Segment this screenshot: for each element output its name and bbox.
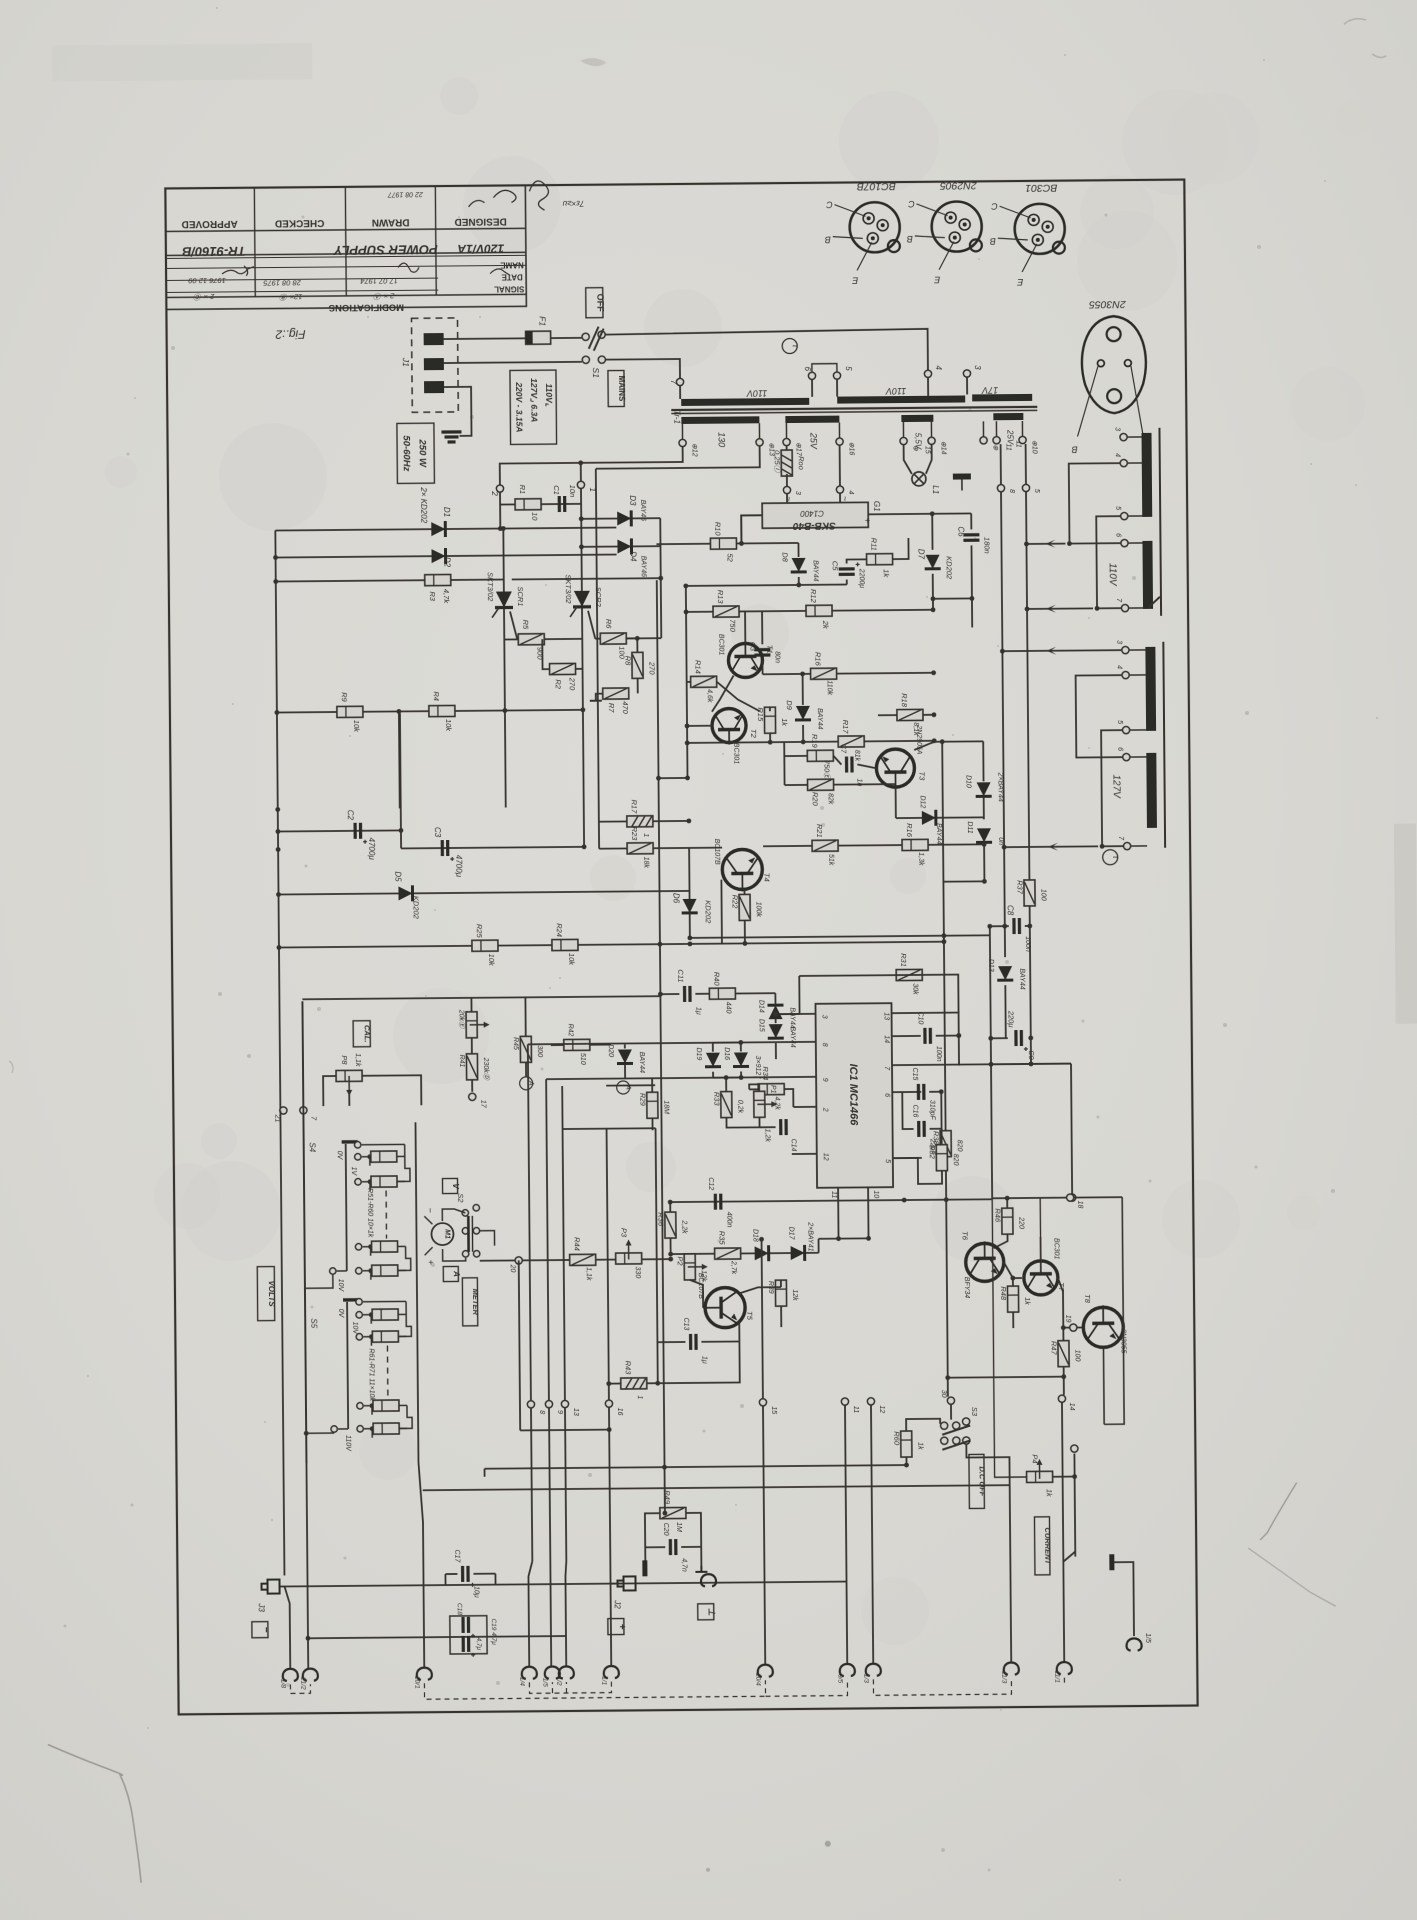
wire — [1102, 1197, 1124, 1424]
junction — [1072, 1474, 1077, 1479]
capacitor C15 — [918, 1084, 924, 1100]
wire — [290, 1684, 310, 1693]
svg-text:51k: 51k — [827, 854, 834, 866]
junction — [1002, 845, 1007, 850]
resistor R16 — [902, 839, 928, 850]
svg-text:100: 100 — [1039, 889, 1046, 901]
wire — [528, 1561, 533, 1666]
wire — [914, 742, 942, 750]
title block signature squiggle 2 — [398, 262, 510, 276]
svg-text:C13: C13 — [682, 1318, 689, 1331]
junction — [982, 842, 987, 847]
wire — [455, 710, 505, 712]
wire — [839, 494, 841, 503]
svg-text:400n: 400n — [725, 1212, 732, 1228]
svg-text:R3: R3 — [428, 591, 437, 601]
svg-text:D15: D15 — [758, 1019, 765, 1032]
wire — [867, 1187, 869, 1238]
svg-text:0V: 0V — [337, 1309, 344, 1319]
wire — [397, 1156, 410, 1181]
svg-text:⊕10: ⊕10 — [1031, 440, 1038, 454]
wire — [1128, 462, 1142, 464]
svg-text:310pF: 310pF — [928, 1100, 935, 1121]
svg-text:3: 3 — [1115, 640, 1122, 644]
wire — [776, 1013, 800, 1015]
wire — [763, 1406, 765, 1664]
connector J1 pin 1 — [424, 333, 444, 345]
junction — [607, 1427, 612, 1432]
junction — [1024, 542, 1029, 547]
wire — [784, 1089, 793, 1107]
svg-text:P1: P1 — [769, 1085, 776, 1094]
svg-text:J3: J3 — [257, 1602, 266, 1612]
svg-text:R2: R2 — [554, 679, 563, 689]
junction — [1061, 1374, 1066, 1379]
wire — [749, 1084, 759, 1091]
wire — [398, 1314, 411, 1336]
svg-text:BAY44: BAY44 — [789, 1007, 796, 1028]
svg-text:D19: D19 — [695, 1047, 702, 1060]
resistor R11 — [867, 554, 893, 565]
svg-text:9/5: 9/5 — [836, 1674, 843, 1683]
junction — [970, 596, 975, 601]
svg-text:R35: R35 — [717, 1231, 726, 1246]
potentiometer P3 — [616, 1253, 642, 1264]
wire — [819, 1237, 869, 1239]
wire — [983, 867, 985, 881]
svg-text:8: 8 — [821, 1043, 828, 1047]
terminal -1/5 — [545, 1666, 560, 1678]
svg-text:R51-R60 10×1k: R51-R60 10×1k — [366, 1188, 373, 1238]
resistor R35 — [715, 1248, 741, 1259]
resistor — [372, 1241, 398, 1252]
svg-text:R22: R22 — [731, 895, 740, 910]
wire — [837, 1188, 839, 1239]
svg-text:440: 440 — [724, 1002, 731, 1014]
svg-text:21/2: 21/2 — [299, 1676, 306, 1690]
wire — [565, 1408, 566, 1561]
svg-text:2: 2 — [490, 490, 499, 496]
svg-text:1/3: 1/3 — [862, 1674, 869, 1683]
wire — [590, 1044, 611, 1046]
wire — [444, 387, 471, 436]
svg-text:127V⌟ 6.3A: 127V⌟ 6.3A — [529, 378, 539, 422]
wire — [847, 559, 867, 563]
node — [1123, 753, 1130, 760]
wire — [253, 188, 256, 297]
wire — [302, 1001, 306, 1463]
svg-text:14: 14 — [1068, 1403, 1075, 1411]
SCR1 SKT3/02 — [492, 591, 513, 617]
node — [1123, 842, 1130, 849]
svg-text:CAL.: CAL. — [363, 1025, 372, 1043]
svg-text:2×BAY41: 2×BAY41 — [806, 1221, 813, 1251]
svg-text:P3: P3 — [619, 1228, 628, 1238]
wire — [783, 756, 785, 785]
wire — [541, 503, 581, 505]
junction — [904, 1463, 909, 1468]
wire — [653, 847, 722, 850]
S2 contact — [473, 1228, 479, 1234]
wire — [993, 1234, 1007, 1248]
wire — [833, 756, 841, 765]
svg-text:7ɛ×≥ʊ: 7ɛ×≥ʊ — [562, 199, 584, 208]
wire — [739, 1287, 781, 1293]
svg-text:C16: C16 — [911, 1105, 918, 1118]
wire — [868, 513, 932, 516]
svg-text:82k: 82k — [827, 793, 834, 805]
wire — [528, 1044, 531, 1400]
svg-text:R23: R23 — [630, 826, 639, 841]
svg-text:10: 10 — [530, 512, 539, 521]
svg-text:R44: R44 — [573, 1237, 582, 1251]
wire — [275, 529, 500, 531]
node — [679, 439, 686, 446]
resistor — [372, 1331, 398, 1342]
wire — [285, 1586, 291, 1668]
wire — [166, 252, 526, 255]
svg-text:R13: R13 — [716, 590, 725, 605]
wire — [717, 681, 760, 711]
wire — [1076, 675, 1123, 757]
wire — [660, 578, 663, 638]
capacitor C8 — [1014, 918, 1020, 934]
svg-text:SCR2: SCR2 — [594, 587, 603, 608]
wire — [932, 512, 971, 514]
wire — [1129, 649, 1145, 651]
resistor R41 — [466, 1054, 477, 1080]
svg-text:C: C — [908, 199, 915, 209]
capacitor C14 — [781, 1119, 787, 1135]
node — [980, 437, 987, 444]
label box mains voltages — [510, 370, 557, 444]
wire — [303, 1114, 308, 1668]
resistor — [373, 1400, 399, 1411]
resistor R44 — [570, 1254, 596, 1265]
wire — [990, 925, 1005, 927]
transformer Tr1 primary winding bar 2 — [837, 395, 965, 403]
node — [545, 1401, 552, 1408]
wire — [1131, 845, 1147, 847]
wire — [995, 421, 997, 436]
svg-text:C10: C10 — [917, 1011, 924, 1024]
svg-text:11: 11 — [852, 1406, 859, 1413]
wire — [713, 1041, 741, 1043]
wire — [1002, 650, 1121, 651]
svg-text:Fig.:2: Fig.:2 — [275, 327, 305, 341]
svg-text:B: B — [1072, 445, 1078, 455]
wire — [479, 1231, 494, 1246]
terminal 1/5 — [1126, 1638, 1141, 1650]
svg-text:D3: D3 — [628, 495, 637, 506]
S5 tap bar 0V — [343, 1298, 359, 1302]
capacitor C2 — [355, 823, 367, 844]
wire — [1000, 444, 1002, 484]
wire — [306, 1275, 333, 1288]
wire — [1069, 463, 1121, 543]
resistor R20 — [808, 779, 834, 790]
junction — [1028, 1036, 1033, 1041]
node — [759, 1399, 766, 1406]
P8 wiper — [346, 1076, 352, 1096]
resistor R29 — [647, 1092, 658, 1118]
svg-text:B: B — [990, 236, 996, 246]
wire — [665, 1485, 1010, 1488]
wire — [1096, 516, 1121, 608]
capacitor C12 — [715, 1194, 721, 1210]
diode D3 — [617, 510, 631, 526]
wire — [657, 1341, 739, 1383]
wire — [607, 1129, 609, 1400]
diode D1 — [431, 521, 445, 537]
wire — [812, 364, 837, 372]
svg-text:D5: D5 — [393, 871, 402, 882]
svg-text:1: 1 — [642, 833, 649, 837]
resistor R38 — [940, 1131, 951, 1157]
wire — [636, 638, 638, 652]
svg-text:R9: R9 — [340, 692, 349, 702]
svg-text:~: ~ — [840, 496, 850, 501]
resistor R42 — [564, 1039, 590, 1050]
svg-text:⊕16: ⊕16 — [848, 442, 855, 456]
pin node — [1071, 1445, 1078, 1452]
resistor R3 — [425, 574, 451, 585]
transformer Tr1 primary winding bar 3 — [972, 394, 1032, 402]
junction — [687, 935, 692, 940]
svg-text:1μ: 1μ — [701, 1356, 708, 1364]
connector J1 pin 2 — [424, 358, 444, 370]
wire — [1040, 1237, 1042, 1261]
svg-text:C17: C17 — [453, 1550, 460, 1564]
wire — [444, 362, 582, 363]
wire — [1130, 729, 1146, 731]
transistor T5 BC107B — [703, 1287, 745, 1327]
wire — [769, 707, 771, 711]
wire — [280, 1110, 284, 1575]
wire — [971, 598, 973, 627]
wire — [758, 423, 760, 438]
junction — [1002, 924, 1007, 929]
svg-text:470: 470 — [621, 701, 630, 714]
wire — [400, 713, 401, 830]
wire — [1030, 906, 1031, 1064]
junction — [276, 829, 281, 834]
junction — [931, 670, 936, 675]
svg-text:R10: R10 — [713, 522, 722, 537]
resistor — [372, 1309, 398, 1320]
wire — [1005, 925, 1009, 927]
svg-text:BAY44: BAY44 — [812, 560, 819, 581]
wire — [485, 1465, 907, 1469]
wire — [686, 610, 933, 612]
S3 contact — [953, 1437, 960, 1444]
S3 contact — [963, 1437, 970, 1444]
wire — [398, 1245, 406, 1247]
svg-text:127V: 127V — [1110, 774, 1121, 799]
meter M1 — [431, 1223, 453, 1245]
svg-text:D16: D16 — [723, 1047, 730, 1060]
svg-text:D.C OFF: D.C OFF — [978, 1466, 987, 1496]
svg-text:R21: R21 — [815, 824, 824, 838]
svg-text:820: 820 — [956, 1140, 963, 1152]
diode D13 — [997, 966, 1013, 980]
junction — [1010, 1276, 1015, 1281]
wire — [1163, 642, 1165, 848]
svg-text:5: 5 — [1114, 506, 1121, 510]
junction — [759, 1237, 764, 1242]
wire — [644, 1547, 646, 1560]
wire — [599, 820, 627, 822]
pin 14 — [1058, 1395, 1065, 1402]
wire — [346, 1144, 347, 1271]
wire — [337, 1270, 347, 1272]
transistor T1 BC301 — [728, 641, 762, 677]
wire — [983, 843, 985, 867]
svg-text:10k: 10k — [487, 954, 496, 967]
wire — [1063, 1552, 1075, 1562]
wire — [904, 445, 912, 474]
svg-text:4: 4 — [1116, 665, 1123, 669]
transformer Tr1 secondary winding 25V — [785, 416, 839, 423]
junction — [932, 738, 937, 743]
resistor R43 — [621, 1378, 647, 1389]
svg-text:17 07 1974: 17 07 1974 — [360, 276, 398, 285]
terminal earth — [701, 1574, 716, 1586]
svg-text:1,3k: 1,3k — [917, 852, 924, 866]
svg-text:220: 220 — [1017, 1216, 1024, 1229]
wire — [946, 1198, 992, 1200]
wire — [279, 942, 944, 948]
svg-text:R46: R46 — [993, 1208, 1002, 1223]
wire — [1004, 985, 1006, 1038]
capacitor C10 — [925, 1028, 931, 1044]
resistor R6 — [600, 633, 626, 644]
svg-text:110k: 110k — [826, 680, 833, 695]
svg-text:CURRENT: CURRENT — [1043, 1527, 1052, 1565]
node — [330, 1268, 336, 1274]
svg-text:F1: F1 — [537, 316, 547, 326]
capacitor C17 — [463, 1566, 475, 1587]
svg-text:250 W: 250 W — [417, 438, 428, 468]
capacitor C16 — [919, 1121, 925, 1137]
wire — [1012, 1278, 1014, 1286]
junction — [580, 707, 585, 712]
junction — [579, 544, 584, 549]
svg-text:DESIGNED: DESIGNED — [454, 215, 506, 226]
svg-text:1,1k: 1,1k — [354, 1053, 361, 1067]
wire — [780, 1280, 782, 1287]
wire — [370, 1247, 372, 1256]
svg-text:C9: C9 — [1027, 1050, 1036, 1060]
svg-text:11: 11 — [830, 1191, 837, 1198]
wire — [763, 673, 811, 675]
wire — [399, 1404, 407, 1406]
wire — [363, 1300, 406, 1302]
pin 8 — [997, 485, 1004, 492]
svg-text:D6: D6 — [672, 893, 681, 904]
wire — [308, 1636, 566, 1638]
wire — [679, 386, 681, 399]
wire — [405, 1301, 407, 1314]
terminal 10/1 — [417, 1668, 432, 1680]
resistor R19 — [807, 750, 833, 761]
svg-text:R19: R19 — [810, 734, 819, 749]
svg-text:50-60Hz: 50-60Hz — [400, 435, 411, 471]
junction — [768, 740, 773, 745]
svg-text:OFF: OFF — [595, 294, 605, 313]
2N3055 TO-3 package outline — [1081, 316, 1146, 414]
fuse F1 — [526, 331, 551, 344]
wire — [690, 935, 990, 938]
svg-text:IC1 MC1466: IC1 MC1466 — [847, 1064, 860, 1127]
S2 contact — [462, 1251, 468, 1257]
svg-text:6: 6 — [1116, 747, 1123, 751]
junction — [1000, 649, 1005, 654]
resistor R22 — [739, 894, 750, 920]
capacitor box C18 C19 — [450, 1616, 487, 1654]
wire — [1026, 543, 1065, 545]
resistor R40 — [709, 988, 735, 999]
wire — [580, 489, 582, 519]
wire — [606, 1084, 655, 1086]
drawing frame border — [165, 180, 1197, 1715]
wire — [583, 710, 584, 847]
svg-text:13: 13 — [883, 1012, 890, 1020]
capacitor C11 — [685, 986, 691, 1002]
node — [1121, 604, 1128, 611]
svg-text:R15: R15 — [756, 707, 765, 722]
scan streak right edge — [1394, 824, 1417, 1024]
svg-text:1k: 1k — [1045, 1489, 1052, 1497]
svg-text:R48: R48 — [999, 1286, 1008, 1301]
junction — [658, 992, 663, 997]
node — [527, 1401, 534, 1408]
wire — [765, 1680, 847, 1697]
svg-text:18k: 18k — [642, 857, 649, 869]
node — [841, 1398, 848, 1405]
svg-text:4: 4 — [934, 365, 943, 370]
wire — [371, 1406, 373, 1415]
svg-text:8: 8 — [1008, 489, 1015, 493]
wire — [785, 423, 787, 438]
svg-text:+: + — [616, 1624, 627, 1630]
label box OFF — [586, 288, 603, 318]
wire — [923, 714, 934, 716]
wire — [596, 694, 603, 701]
wire — [323, 1076, 336, 1106]
junction — [368, 1268, 373, 1273]
junction — [738, 1040, 743, 1045]
svg-text:R31: R31 — [899, 953, 908, 967]
wire — [687, 742, 838, 743]
svg-text:81k: 81k — [853, 750, 860, 762]
wire — [774, 993, 776, 1005]
resistor R31 — [896, 969, 922, 980]
svg-text:4: 4 — [847, 491, 854, 495]
wire — [873, 1678, 1011, 1695]
junction — [606, 1381, 611, 1386]
svg-text:P2: P2 — [676, 1256, 685, 1266]
S2 lever — [467, 1216, 470, 1252]
node — [900, 437, 907, 444]
svg-text:80n: 80n — [773, 651, 780, 663]
junction — [368, 1244, 373, 1249]
wire — [525, 1062, 527, 1076]
wire — [348, 1093, 350, 1106]
junction — [273, 555, 278, 560]
wire — [966, 1444, 1009, 1485]
junction — [304, 1431, 309, 1436]
